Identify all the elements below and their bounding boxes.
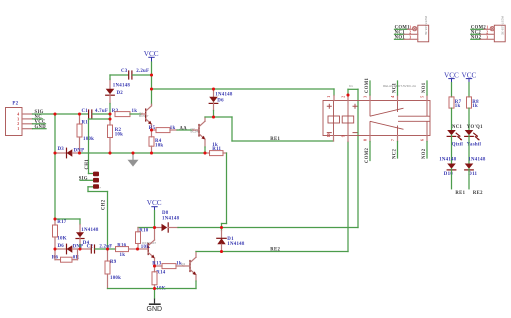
diode D3 DNP: [55, 147, 84, 158]
wire SIG vertical drop x=55: [54, 114, 56, 219]
svg-text:R17: R17: [57, 220, 66, 225]
relay pin 2 stub: [341, 95, 348, 101]
relay pin 8 stub + net COM2: [363, 136, 370, 164]
capacitor C3 2.2uF: [121, 69, 152, 79]
relay contact 2 (COM2/NC2/NO2): [370, 121, 430, 135]
svg-text:COM1: COM1: [365, 77, 370, 93]
wire ground rail y=153: [80, 152, 206, 154]
resistor R9 100k: [105, 249, 121, 289]
svg-text:5: 5: [420, 96, 424, 98]
svg-text:NC2: NC2: [393, 149, 398, 159]
svg-text:NO2: NO2: [422, 148, 427, 159]
svg-text:COM2: COM2: [365, 147, 370, 163]
solder jumper SJ1 (CH1/SIG/CH2): [93, 172, 101, 190]
node C2 out / CH2 / R9: [106, 247, 109, 250]
X2 pin 1 + net COM2: [471, 26, 495, 31]
diode D2 1N4148: [106, 79, 131, 114]
node D6 cathode / Q2 collector: [212, 115, 215, 118]
resistor R11 1k: [205, 143, 227, 156]
node CH1 branch: [108, 117, 111, 120]
svg-text:K1: K1: [349, 84, 353, 88]
svg-text:R9: R9: [110, 260, 117, 265]
node VCC2 / D8 / Q3 collector: [153, 226, 156, 229]
power symbol VCC (LED 2): [462, 72, 477, 83]
X2 pin 3 + net NO2: [471, 36, 495, 41]
svg-text:1N4148: 1N4148: [468, 158, 486, 163]
relay K1 box: [323, 84, 430, 136]
ground symbol GND: [147, 289, 163, 314]
relay pin 6 stub + net NO2: [420, 136, 427, 160]
resistor R8 1k: [467, 83, 480, 132]
svg-text:10k: 10k: [155, 144, 163, 149]
svg-text:1N4148: 1N4148: [215, 93, 233, 98]
node C1 out: [108, 112, 111, 115]
resistor R3 1k: [112, 109, 142, 117]
svg-text:1N4148: 1N4148: [81, 228, 99, 233]
svg-text:1k: 1k: [472, 104, 478, 109]
node relay pin 2: [346, 93, 349, 96]
diode D4 1N4148 DNP: [73, 225, 99, 250]
svg-text:1k: 1k: [120, 253, 126, 258]
svg-text:C1: C1: [82, 109, 89, 114]
X1 pin 2 + net NC1: [395, 31, 418, 36]
transistor Q1: [139, 104, 152, 130]
svg-text:D2: D2: [117, 91, 124, 96]
svg-text:D11: D11: [468, 172, 477, 177]
node VCC rail start: [150, 87, 153, 90]
diode D5: [55, 244, 80, 254]
svg-text:10k: 10k: [115, 132, 123, 137]
svg-text:100k: 100k: [110, 276, 121, 281]
node R17 top: [53, 217, 56, 220]
svg-text:NO1: NO1: [422, 82, 427, 93]
svg-text:9: 9: [341, 135, 345, 137]
svg-text:P2: P2: [12, 102, 18, 107]
wire relay pin2 riser via x=358: [222, 89, 359, 227]
svg-text:3: 3: [17, 117, 19, 121]
diode D1 1N4148: [217, 228, 245, 252]
svg-text:CH2: CH2: [102, 199, 107, 210]
diode D8 1N4148: [155, 211, 222, 232]
node R2 bottom on rail: [108, 151, 111, 154]
relay pin 9 stub: [341, 135, 348, 141]
resistor R6 0R: [52, 249, 80, 262]
svg-text:1k: 1k: [455, 104, 461, 109]
node Q3 emitter / R13 / R14: [153, 264, 156, 267]
svg-text:×: ×: [99, 186, 101, 190]
svg-text:RE1: RE1: [270, 137, 280, 142]
svg-text:R11: R11: [212, 147, 221, 152]
svg-text:2: 2: [341, 96, 345, 98]
wire jumper bottom to CH2: [88, 187, 108, 249]
relay coil 2 (pins 2-9): [342, 101, 357, 136]
wire net AA: [177, 129, 193, 131]
svg-text:RELAY-DPDT-5VDC-2A: RELAY-DPDT-5VDC-2A: [383, 84, 417, 88]
resistor R17 10K: [53, 219, 67, 249]
resistor R1 100k: [77, 114, 94, 153]
wire SIG horizontal: [33, 113, 89, 115]
net label GND + wire stub: [33, 125, 47, 130]
svg-text:1: 1: [17, 127, 19, 131]
svg-text:4: 4: [17, 112, 19, 116]
svg-text:NC1: NC1: [393, 83, 398, 93]
svg-text:C3: C3: [121, 69, 128, 74]
resistor R5 1k: [149, 126, 177, 132]
node R17 bottom / D5 anode: [53, 247, 56, 250]
svg-text:YO'Q1: YO'Q1: [467, 125, 483, 130]
svg-text:1: 1: [327, 96, 331, 98]
node R14 bottom / GND: [153, 287, 156, 290]
node D4/D5 cathode: [78, 247, 81, 250]
svg-text:R1: R1: [82, 121, 89, 126]
transistor Q2: [191, 117, 206, 153]
diode D10 1N4148: [439, 158, 457, 189]
diode D6 1N4148: [209, 89, 233, 117]
node Q2 emitter / R11 on rail: [203, 151, 206, 154]
wire R11 down to pulse node: [222, 153, 227, 228]
relay coil 1 (pins 1-10): [327, 101, 340, 136]
relay pin 3 stub + net COM1: [363, 77, 370, 100]
svg-text:6: 6: [420, 139, 424, 141]
svg-text:2: 2: [17, 122, 19, 126]
svg-text:GND: GND: [147, 306, 163, 313]
resistor R4 10k: [149, 130, 163, 153]
svg-text:2.2uF: 2.2uF: [136, 69, 149, 74]
svg-text:GND: GND: [35, 125, 47, 130]
diode D11 1N4148: [465, 158, 486, 189]
net label VCC + wire stub: [33, 120, 46, 125]
svg-text:1N4148: 1N4148: [113, 83, 131, 88]
svg-text:W237-103-3E: W237-103-3E: [501, 16, 505, 35]
resistor R16 1k: [108, 244, 138, 259]
node D3 cathode / R1 bottom: [78, 151, 81, 154]
relay pin 4 stub + net NC1: [391, 81, 398, 101]
svg-text:NC1: NC1: [452, 125, 462, 130]
wire R17 node to D4: [55, 219, 80, 225]
svg-text:RE1: RE1: [455, 191, 465, 196]
svg-text:D3: D3: [58, 147, 65, 152]
transistor Q3: [138, 228, 157, 267]
LED D9 Qizil: [447, 130, 463, 164]
wire RE2 to relay pin 9: [196, 142, 348, 252]
node R1 top: [78, 112, 81, 115]
resistor R2 10k: [108, 119, 124, 153]
X1 pin 1 + net COM1: [395, 26, 417, 31]
X1 pin 3 + net NO1: [395, 36, 418, 41]
relay pin 1 stub: [327, 96, 334, 101]
node D1 on RE2: [220, 250, 223, 253]
svg-text:AA: AA: [180, 126, 188, 131]
svg-text:CH1: CH1: [85, 159, 90, 170]
node SIG/x55: [53, 112, 56, 115]
wire GND rail: [108, 288, 197, 290]
svg-text:VCC: VCC: [147, 199, 162, 207]
transistor Q4: [181, 252, 196, 289]
resistor R7 1k: [449, 83, 462, 132]
power symbol VCC (channel 2): [147, 199, 162, 211]
svg-text:8: 8: [363, 139, 367, 141]
svg-text:R14: R14: [156, 271, 165, 276]
node D6 anode on VCC rail: [212, 87, 215, 90]
power symbol VCC (LED 1): [444, 72, 459, 83]
node D3 anode: [53, 151, 56, 154]
connector P2: [6, 102, 33, 136]
svg-text:10: 10: [327, 133, 331, 137]
svg-text:RE2: RE2: [473, 191, 483, 196]
wire RE1 to relay pin 10: [214, 117, 334, 141]
capacitor C1 4.7uF: [82, 109, 111, 118]
connector X1 box: [418, 16, 429, 42]
node C3 right on VCC column: [150, 73, 153, 76]
LED D12 Yashil: [465, 130, 482, 164]
net label NC + wire stub: [33, 115, 43, 120]
relay contact 1 (COM1/NC1/NO1): [370, 101, 430, 117]
earth arrow symbol: [128, 153, 139, 167]
wire Q2 collector to D6 node: [205, 116, 214, 118]
svg-text:SIG: SIG: [79, 177, 88, 182]
svg-text:Qizil: Qizil: [452, 143, 464, 148]
node earth on rail: [131, 151, 134, 154]
wire VCC rail y=89 to relay pin 1: [152, 89, 335, 96]
svg-text:7: 7: [391, 139, 395, 141]
capacitor C2 2.2uF: [80, 245, 112, 253]
resistor R10 10K: [136, 228, 151, 251]
svg-text:3: 3: [363, 96, 367, 98]
svg-text:W237-103-3E: W237-103-3E: [424, 16, 428, 35]
svg-text:10K: 10K: [57, 236, 66, 241]
node Q1 emitter / R5 / R4: [150, 128, 153, 131]
relay pin 7 stub + net NC2: [391, 136, 398, 160]
relay pin 10 stub: [327, 133, 334, 141]
wire node stack to CH1 jumper: [89, 114, 111, 174]
resistor R13 1k: [152, 262, 184, 269]
svg-text:1N4148: 1N4148: [162, 216, 180, 221]
connector X2 box: [494, 16, 505, 42]
svg-text:4: 4: [391, 96, 395, 98]
wire to R10 top: [138, 227, 155, 229]
wire C3 to D2 corner: [110, 75, 128, 80]
node pulse B: [220, 226, 223, 229]
svg-text:1N4148: 1N4148: [439, 158, 457, 163]
svg-text:1k: 1k: [132, 109, 138, 114]
svg-text:RE2: RE2: [270, 248, 280, 253]
svg-text:D6: D6: [58, 244, 65, 249]
node R4 bottom on rail: [150, 151, 153, 154]
power symbol VCC (main): [144, 50, 159, 62]
relay pin 5 stub + net NO1: [420, 81, 427, 101]
svg-text:4.7uF: 4.7uF: [95, 109, 108, 114]
wire VCC2 down: [154, 211, 156, 228]
resistor R14 10K: [152, 266, 166, 292]
wire VCC column x=151.5: [151, 62, 153, 105]
svg-text:1N4148: 1N4148: [227, 242, 245, 247]
X2 pin 2 + net NC2: [471, 31, 495, 36]
node R16 / R10 / Q3 base: [136, 247, 139, 250]
wire SIG into jumper: [80, 179, 93, 181]
